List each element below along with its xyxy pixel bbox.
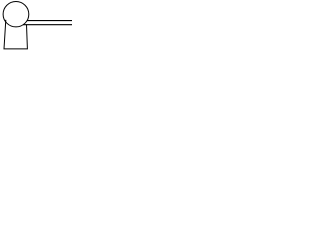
diaphragm circle [3, 2, 29, 27]
wire (top lead) [27, 20, 72, 22]
microphone symbol MIC [0, 0, 72, 51]
wire (bottom lead) [23, 24, 72, 26]
body (trapezoid base) [4, 20, 27, 49]
